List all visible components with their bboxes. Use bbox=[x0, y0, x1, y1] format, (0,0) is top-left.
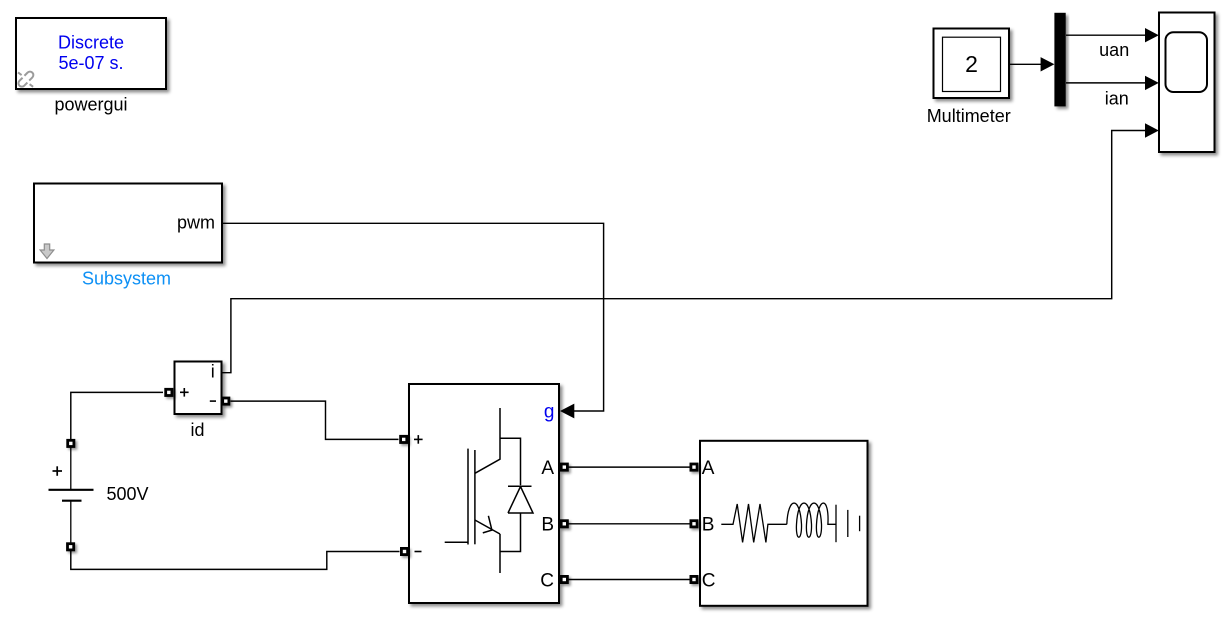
svg-text:Subsystem: Subsystem bbox=[82, 269, 171, 289]
svg-text:powergui: powergui bbox=[54, 94, 127, 114]
svg-text:C: C bbox=[702, 570, 716, 591]
svg-text:id: id bbox=[190, 420, 204, 440]
svg-text:Multimeter: Multimeter bbox=[927, 106, 1011, 126]
svg-text:A: A bbox=[541, 458, 554, 479]
svg-text:C: C bbox=[540, 570, 554, 591]
svg-text:2: 2 bbox=[965, 51, 978, 77]
svg-text:i: i bbox=[211, 362, 215, 382]
svg-text:B: B bbox=[541, 515, 554, 536]
svg-text:ian: ian bbox=[1105, 88, 1129, 108]
svg-text:Discrete: Discrete bbox=[58, 33, 124, 53]
svg-text:5e-07 s.: 5e-07 s. bbox=[58, 53, 123, 73]
svg-text:pwm: pwm bbox=[177, 213, 215, 233]
svg-text:g: g bbox=[544, 401, 555, 422]
svg-text:B: B bbox=[702, 515, 715, 536]
svg-text:500V: 500V bbox=[107, 484, 149, 504]
svg-text:uan: uan bbox=[1099, 40, 1129, 60]
svg-text:A: A bbox=[702, 458, 715, 479]
